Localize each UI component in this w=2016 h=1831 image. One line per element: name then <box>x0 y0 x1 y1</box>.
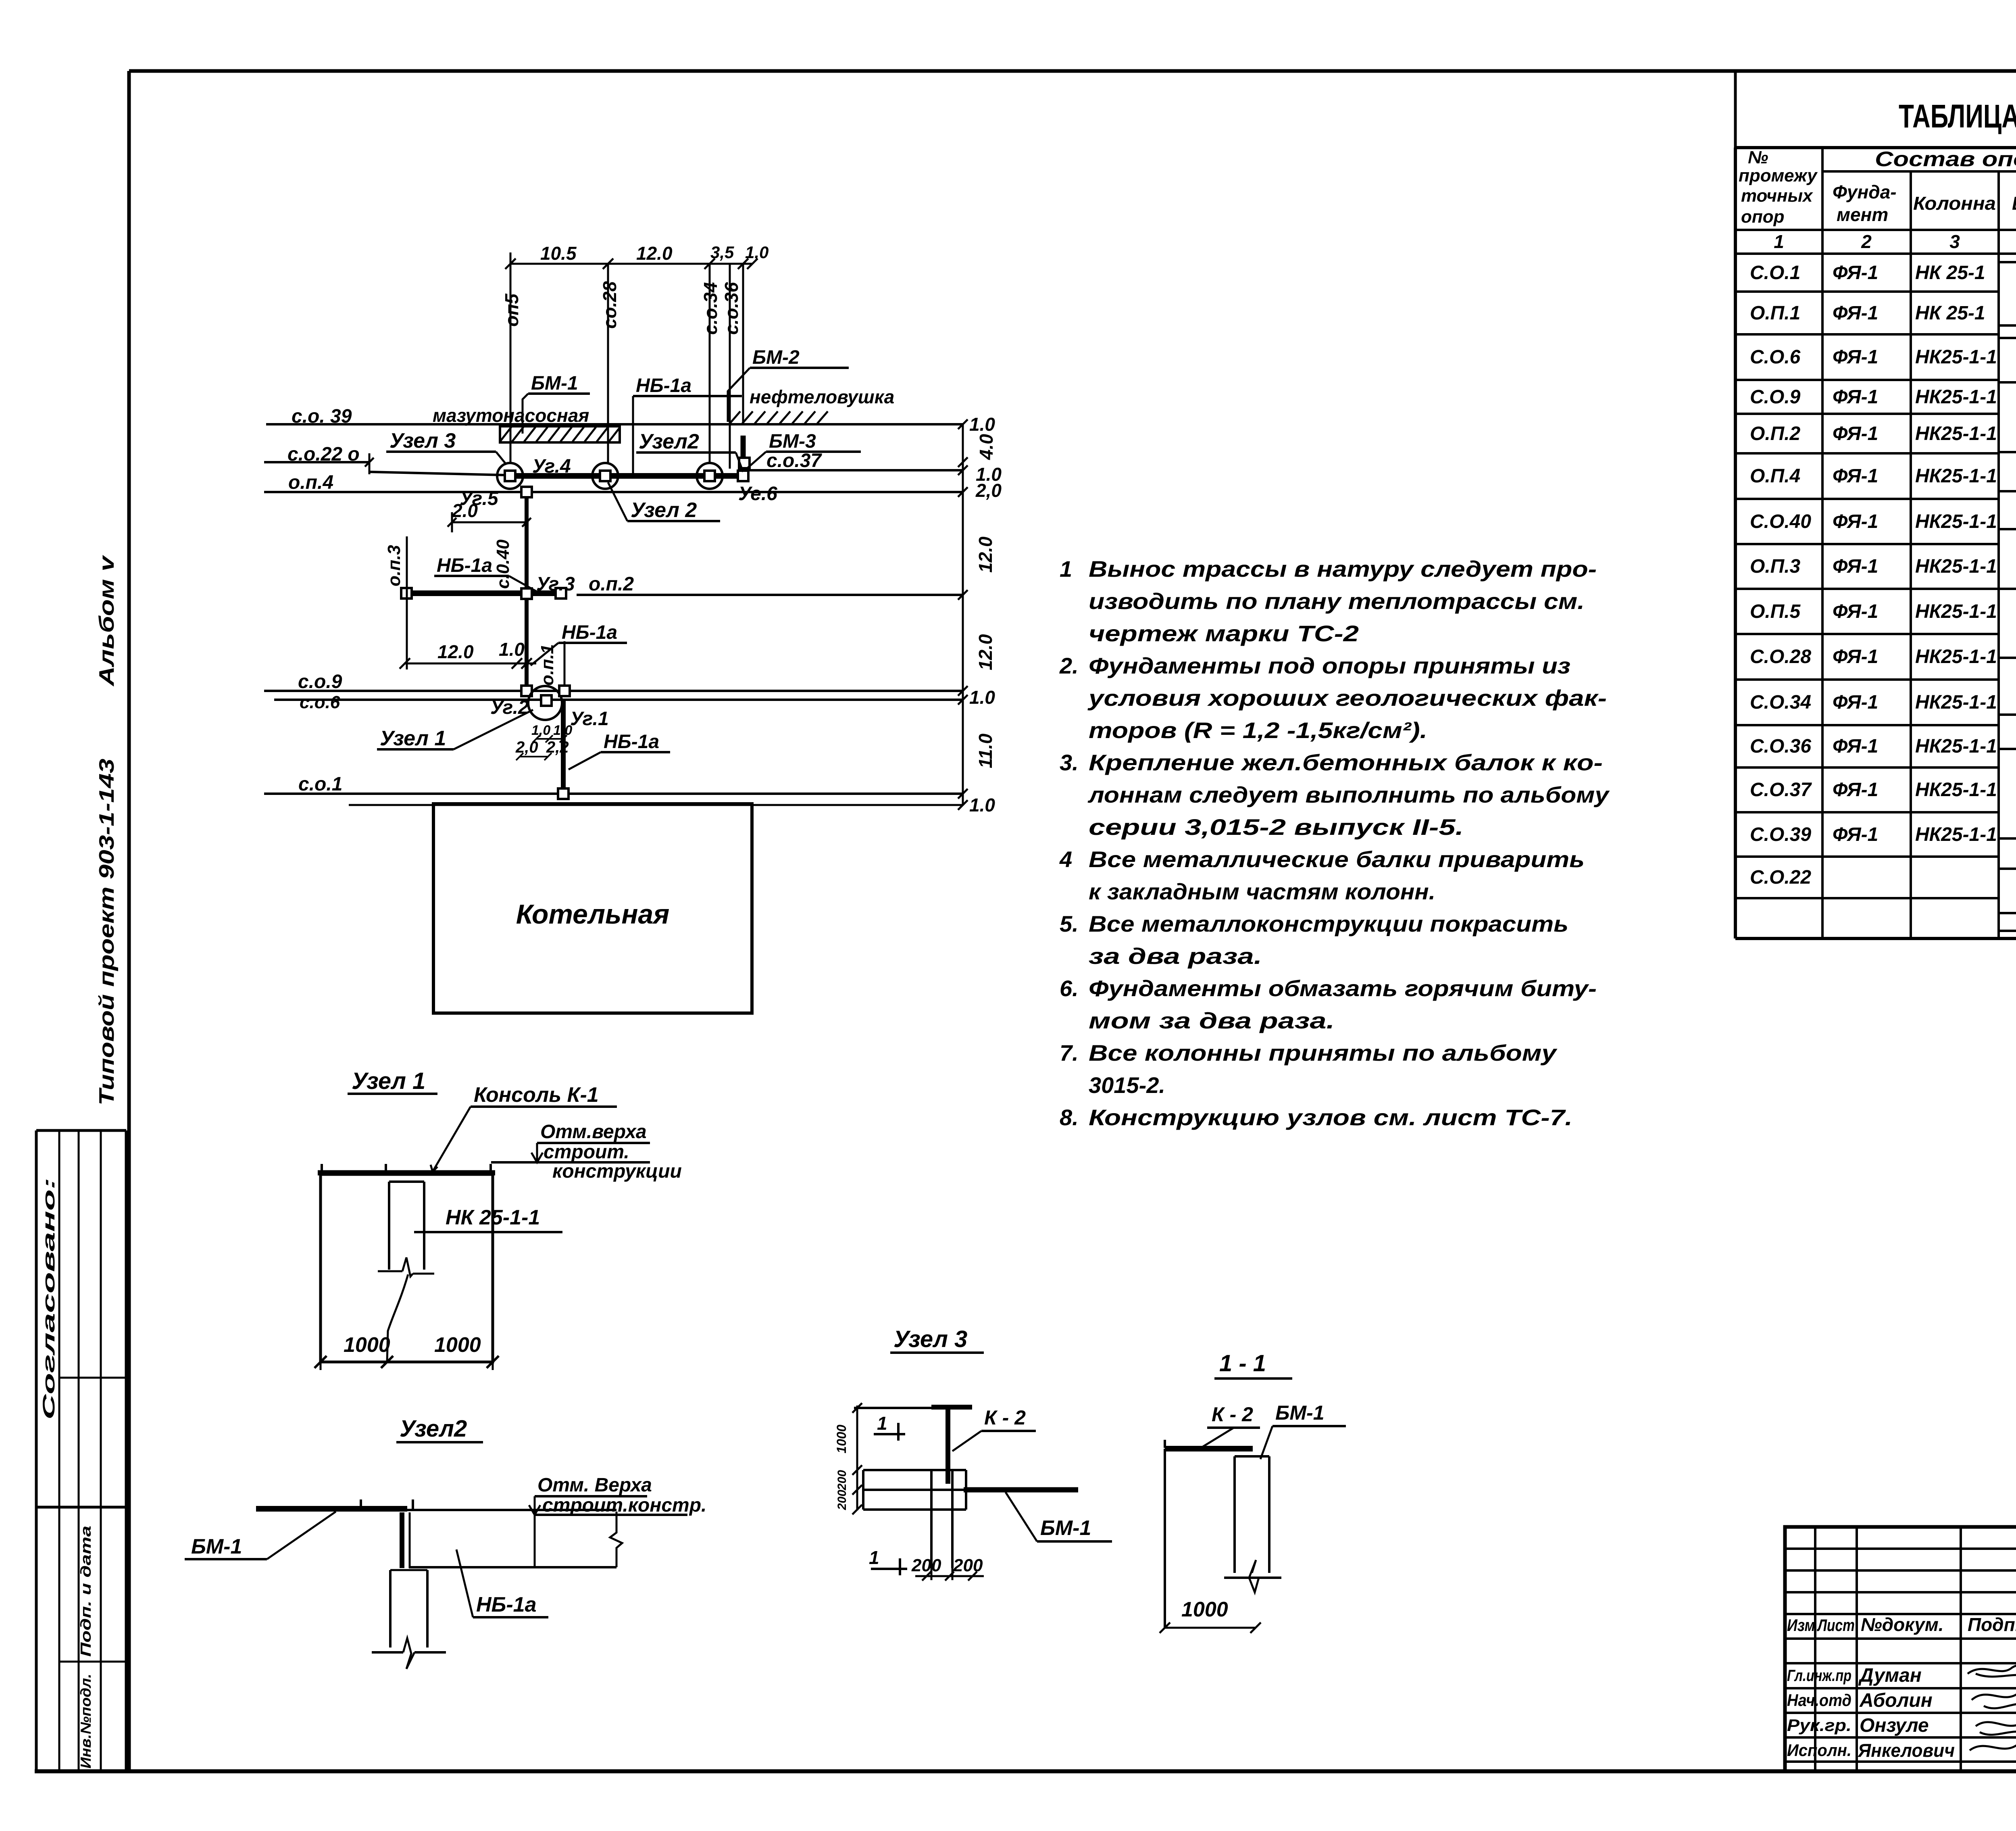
svg-text:О.П.1: О.П.1 <box>1750 302 1800 324</box>
detail Узел 1 title <box>348 1068 437 1094</box>
riser со.40 from Уг.5 down <box>493 487 532 686</box>
svg-text:1: 1 <box>1060 556 1072 582</box>
svg-text:ФЯ-1: ФЯ-1 <box>1833 736 1878 757</box>
svg-text:ФЯ-1: ФЯ-1 <box>1833 423 1878 444</box>
detail Узел 2: column below <box>372 1570 446 1669</box>
svg-text:НК25-1-1: НК25-1-1 <box>1915 465 1997 487</box>
svg-text:ФЯ-1: ФЯ-1 <box>1833 465 1878 487</box>
svg-text:ФЯ-1: ФЯ-1 <box>1833 779 1878 801</box>
detail Узел 3 title <box>890 1326 984 1353</box>
svg-text:С.О.28: С.О.28 <box>1750 646 1811 667</box>
svg-text:2.: 2. <box>1059 653 1079 678</box>
right dim labels <box>969 414 1002 815</box>
table row С.О.34 <box>1750 692 2016 713</box>
detail 1-1 title <box>1214 1350 1292 1378</box>
svg-text:С.О.1: С.О.1 <box>1750 262 1800 284</box>
svg-text:4.0: 4.0 <box>976 434 997 460</box>
main thick trace Уг.5 - Уг.4 - Уе.6 <box>506 436 744 477</box>
svg-text:БМ-2: БМ-2 <box>752 347 800 368</box>
svg-text:Подп. и дата: Подп. и дата <box>77 1526 94 1657</box>
label Узел 2 upper with leader <box>636 430 743 472</box>
svg-text:опор: опор <box>1741 207 1785 227</box>
svg-text:Все колонны приняты по ал: Все колонны приняты по альбому <box>1089 1040 1558 1066</box>
plan top dimension line <box>505 243 768 275</box>
svg-text:НК25-1-1: НК25-1-1 <box>1915 824 1997 845</box>
svg-text:НК25-1-1: НК25-1-1 <box>1915 601 1997 622</box>
table row С.О.28 <box>1750 646 2016 667</box>
svg-text:Узел 1: Узел 1 <box>352 1068 425 1094</box>
svg-text:Янкелович: Янкелович <box>1858 1740 1955 1761</box>
svg-text:200: 200 <box>835 1490 849 1510</box>
svg-text:Лист: Лист <box>1817 1616 1855 1635</box>
table row С.О.36 <box>1750 736 2016 757</box>
svg-text:ФЯ-1: ФЯ-1 <box>1833 601 1878 622</box>
table header texts <box>1739 148 2016 252</box>
svg-text:О.П.2: О.П.2 <box>1750 423 1801 444</box>
svg-text:Исполн.: Исполн. <box>1787 1741 1851 1760</box>
table row С.О.37 <box>1750 779 2016 801</box>
svg-text:НК25-1-1: НК25-1-1 <box>1915 736 1997 757</box>
node circle Уе.6 <box>697 458 777 505</box>
svg-text:2,0: 2,0 <box>975 480 1002 501</box>
detail Узел 2: beam НБ-1а side view <box>402 1512 622 1568</box>
svg-text:Фундаменты обмазать горячим: Фундаменты обмазать горячим биту- <box>1089 976 1597 1001</box>
svg-text:условия хороших геологически: условия хороших геологических фак- <box>1087 685 1607 711</box>
dim 12.0 / 1.0 under branch <box>400 639 536 669</box>
svg-text:Балка: Балка <box>2012 193 2016 214</box>
grid vertical со.28 <box>599 264 620 464</box>
detail Узел 1: label НК 25-1-1 <box>414 1206 562 1232</box>
label НБ-1а riser with leader <box>531 622 627 665</box>
detail Узел 1: foundation square <box>318 1164 495 1362</box>
grid vertical с.о.36 <box>721 264 742 469</box>
svg-text:с.о.34: с.о.34 <box>700 282 721 335</box>
svg-text:с.о.37: с.о.37 <box>766 450 822 471</box>
svg-text:12.0: 12.0 <box>975 536 996 573</box>
table row С.О.1 <box>1750 262 2016 284</box>
grid vertical short <box>742 264 744 423</box>
svg-text:НБ-1а: НБ-1а <box>476 1593 537 1616</box>
svg-text:НК25-1-1: НК25-1-1 <box>1915 346 1997 368</box>
hatched strip мазутонасосная <box>433 405 620 442</box>
svg-text:С.О.22: С.О.22 <box>1750 867 1811 888</box>
svg-text:ФЯ-1: ФЯ-1 <box>1833 692 1878 713</box>
svg-text:12.0: 12.0 <box>437 641 474 662</box>
detail Узел 2 title <box>396 1416 483 1442</box>
label БМ-3 with leader <box>747 431 861 469</box>
table column 4 Балка sub-cells <box>1999 262 2016 931</box>
svg-text:2,2: 2,2 <box>546 738 569 756</box>
svg-text:Отм. Верха: Отм. Верха <box>537 1474 652 1496</box>
table row С.О.6 <box>1750 346 2016 368</box>
svg-text:Крепление жел.бетонных балок: Крепление жел.бетонных балок к ко- <box>1089 750 1603 775</box>
svg-text:Уг.3: Уг.3 <box>536 573 575 595</box>
svg-text:№: № <box>1748 148 1768 167</box>
svg-text:Все металлические балки прив: Все металлические балки приварить <box>1089 847 1585 872</box>
svg-text:Изм: Изм <box>1787 1616 1815 1635</box>
detail Узел 1: level mark Отм.верха строит. конструкции <box>491 1121 682 1182</box>
svg-text:мазутонасосная: мазутонасосная <box>433 405 589 426</box>
svg-text:ФЯ-1: ФЯ-1 <box>1833 824 1878 845</box>
table row empty <box>0 0 0 0</box>
svg-text:НК25-1-1: НК25-1-1 <box>1915 386 1997 408</box>
svg-text:БМ-1: БМ-1 <box>1040 1516 1091 1540</box>
label БМ-1 with leader <box>523 373 590 434</box>
svg-text:К - 2: К - 2 <box>984 1406 1026 1429</box>
svg-text:1: 1 <box>869 1547 879 1568</box>
svg-text:ФЯ-1: ФЯ-1 <box>1833 386 1878 408</box>
svg-text:О.П.4: О.П.4 <box>1750 465 1800 487</box>
svg-text:Типовой проект 903-1-143: Типовой проект 903-1-143 <box>95 759 119 1105</box>
svg-text:Думан: Думан <box>1858 1665 1922 1686</box>
svg-text:НК25-1-1: НК25-1-1 <box>1915 423 1997 444</box>
svg-text:2,0: 2,0 <box>515 738 538 756</box>
left margin vertical text: project name <box>95 555 119 1105</box>
svg-text:3: 3 <box>1949 231 1960 252</box>
svg-text:серии 3,015-2 выпуск II-5: серии 3,015-2 выпуск II-5. <box>1089 814 1464 840</box>
svg-text:Узел 2: Узел 2 <box>631 498 697 522</box>
route line с.о.22 <box>264 444 506 475</box>
svg-text:Узел 3: Узел 3 <box>389 429 456 453</box>
node Уг.3 о.п.2 <box>521 573 963 599</box>
route line с.о.37 <box>749 450 963 471</box>
detail 1-1: bottom dim 1000 <box>1160 1598 1261 1633</box>
svg-text:оп5: оп5 <box>501 293 522 327</box>
svg-text:лоннам следует выполнить по: лоннам следует выполнить по альбому <box>1087 782 1610 807</box>
svg-text:№докум.: №докум. <box>1861 1614 1944 1635</box>
svg-text:чертеж марки ТС-2: чертеж марки ТС-2 <box>1089 621 1359 646</box>
svg-text:Узел2: Узел2 <box>639 430 699 453</box>
svg-text:О.П.5: О.П.5 <box>1750 601 1801 622</box>
handwritten notes list <box>1059 556 1610 1130</box>
detail Узел 3: label К-2 <box>952 1406 1036 1451</box>
svg-text:5.: 5. <box>1060 911 1079 936</box>
detail 1-1: labels К-2 and БМ-1 <box>1200 1401 1346 1459</box>
svg-text:точных: точных <box>1741 186 1813 206</box>
svg-text:Гл.инж.пр: Гл.инж.пр <box>1787 1667 1851 1685</box>
svg-text:Все металлоконструкции покра: Все металлоконструкции покрасить <box>1089 911 1568 936</box>
Узел 1 mini dims <box>515 723 572 760</box>
svg-text:с.0.40: с.0.40 <box>493 539 513 589</box>
svg-text:ТАБЛИЦА: ТАБЛИЦА <box>1899 98 2016 135</box>
svg-text:1.0: 1.0 <box>969 687 995 708</box>
label Узел 1 with leader <box>377 710 533 750</box>
svg-text:БМ-1: БМ-1 <box>1275 1401 1325 1424</box>
label НБ-1а lower with leader <box>569 731 670 770</box>
table row О.П.5 <box>1750 601 2016 622</box>
svg-text:торов (R = 1,2 -1,5кг/см²).: торов (R = 1,2 -1,5кг/см²). <box>1089 717 1427 743</box>
detail 1-1: beam БМ-1 vertical <box>1224 1456 1281 1592</box>
svg-text:Отм.верха: Отм.верха <box>540 1121 647 1143</box>
svg-text:Узел 3: Узел 3 <box>893 1326 967 1352</box>
svg-text:10.5: 10.5 <box>540 243 577 264</box>
svg-text:Инв.№подл.: Инв.№подл. <box>77 1674 94 1768</box>
detail Узел 3: label БМ-1 <box>1006 1492 1112 1541</box>
svg-text:1,0: 1,0 <box>745 243 768 262</box>
dim 2.0 below Уг.5 <box>448 500 531 532</box>
svg-text:200: 200 <box>835 1470 849 1491</box>
svg-text:БМ-1: БМ-1 <box>531 373 578 394</box>
route line с.о.6 <box>274 692 963 712</box>
svg-text:С.О.40: С.О.40 <box>1750 511 1811 532</box>
svg-text:НК 25-1: НК 25-1 <box>1915 262 1985 284</box>
signatures scribbles <box>1968 1665 2016 1750</box>
svg-text:о.п.3: о.п.3 <box>384 545 404 586</box>
svg-text:200: 200 <box>953 1556 983 1575</box>
svg-text:12.0: 12.0 <box>975 634 996 670</box>
right dimension boundary <box>958 419 968 810</box>
svg-text:1.0: 1.0 <box>969 795 995 815</box>
svg-text:НБ-1а: НБ-1а <box>562 622 617 643</box>
support table grid <box>1735 148 2016 938</box>
svg-text:3.: 3. <box>1060 750 1079 775</box>
svg-text:2: 2 <box>1861 231 1872 252</box>
svg-text:Рук.гр.: Рук.гр. <box>1787 1716 1851 1735</box>
svg-text:1000: 1000 <box>434 1333 481 1357</box>
svg-text:С.О.6: С.О.6 <box>1750 346 1801 368</box>
svg-text:4: 4 <box>1059 847 1072 872</box>
table row О.П.2 <box>1750 423 2016 444</box>
label БМ-2 with leader <box>728 347 849 422</box>
node circle Уг.5/Уг.4 <box>460 456 571 509</box>
svg-text:строит.констр.: строит.констр. <box>542 1495 706 1516</box>
svg-text:3,5: 3,5 <box>710 243 734 262</box>
svg-text:Уг.1: Уг.1 <box>570 708 609 730</box>
svg-text:со.28: со.28 <box>599 281 620 329</box>
detail Узел 1: label Консоль К-1 <box>431 1083 617 1172</box>
svg-text:НБ-1а: НБ-1а <box>604 731 659 753</box>
detail Узел 2: label НБ-1а <box>456 1549 548 1617</box>
svg-text:11.0: 11.0 <box>975 733 996 768</box>
route line along building top <box>349 804 963 806</box>
svg-text:НК25-1-1: НК25-1-1 <box>1915 556 1997 577</box>
svg-text:Вынос трассы в натуру следует: Вынос трассы в натуру следует про- <box>1089 556 1597 582</box>
svg-text:строит.: строит. <box>544 1141 629 1163</box>
svg-text:конструкции: конструкции <box>552 1161 682 1182</box>
svg-text:о.п.4: о.п.4 <box>288 472 333 493</box>
svg-text:Альбом v: Альбом v <box>95 555 119 687</box>
svg-text:к закладным частям колонн.: к закладным частям колонн. <box>1089 879 1435 904</box>
title block header Изм Лист Nдокум Подп Дата <box>1787 1614 2016 1635</box>
svg-text:Узел 1: Узел 1 <box>380 727 446 750</box>
svg-text:О.П.3: О.П.3 <box>1750 556 1801 577</box>
svg-text:Онзуле: Онзуле <box>1860 1715 1929 1736</box>
svg-text:Согласовано:: Согласовано: <box>39 1178 58 1420</box>
detail Узел 3: left dimension column <box>834 1403 862 1514</box>
node Узел 1 cluster <box>490 641 609 790</box>
svg-text:1000: 1000 <box>834 1424 849 1453</box>
svg-text:1000: 1000 <box>1181 1598 1228 1621</box>
route line о.п.4 <box>264 472 963 493</box>
grid vertical с.о.34 <box>700 264 721 464</box>
svg-text:Узел2: Узел2 <box>400 1416 467 1442</box>
detail Узел 3: block and beam БМ-1 <box>863 1470 1078 1568</box>
svg-text:Нач.отд: Нач.отд <box>1787 1691 1851 1710</box>
table row О.П.4 <box>1750 465 2016 487</box>
svg-text:С.О.34: С.О.34 <box>1750 692 1811 713</box>
svg-text:БМ-1: БМ-1 <box>191 1535 242 1558</box>
svg-text:промежу: промежу <box>1739 166 1818 186</box>
svg-text:НК25-1-1: НК25-1-1 <box>1915 779 1997 801</box>
svg-text:мент: мент <box>1837 204 1888 225</box>
svg-text:Колонна: Колонна <box>1913 193 1996 214</box>
svg-text:Уг.4: Уг.4 <box>532 456 571 477</box>
svg-text:С.О.39: С.О.39 <box>1750 824 1811 845</box>
title block outer <box>1785 1527 2016 1771</box>
svg-text:С.О.37: С.О.37 <box>1750 779 1812 801</box>
svg-text:1 - 1: 1 - 1 <box>1219 1350 1266 1376</box>
svg-text:Котельная: Котельная <box>516 899 670 930</box>
detail Узел 2: beam БМ-1 thick <box>256 1499 616 1510</box>
svg-text:Аболин: Аболин <box>1859 1690 1933 1711</box>
svg-text:ФЯ-1: ФЯ-1 <box>1833 556 1878 577</box>
svg-text:мом за два раза.: мом за два раза. <box>1089 1008 1335 1033</box>
svg-text:1,0: 1,0 <box>531 723 550 738</box>
hatched strip нефтеловушка <box>727 386 894 424</box>
building Котельная <box>433 804 752 1013</box>
label Узел 2 lower with leader <box>608 482 720 522</box>
detail Узел 3: top line and column К-2 <box>854 1407 972 1484</box>
svg-text:8.: 8. <box>1060 1105 1079 1130</box>
detail Узел 1: bottom dimension 1000 1000 <box>314 1333 499 1370</box>
svg-text:ФЯ-1: ФЯ-1 <box>1833 262 1878 284</box>
svg-text:ФЯ-1: ФЯ-1 <box>1833 346 1878 368</box>
svg-text:1.0: 1.0 <box>969 414 995 435</box>
svg-text:3015-2.: 3015-2. <box>1089 1072 1165 1098</box>
label НБ-1а branch with leader <box>434 555 536 591</box>
svg-text:изводить по плану теплотрассы: изводить по плану теплотрассы см. <box>1089 588 1585 614</box>
svg-text:Консоль К-1: Консоль К-1 <box>474 1083 599 1107</box>
detail Узел 2: level mark Отм. Верха строит.констр. <box>529 1474 706 1516</box>
svg-text:с.о.6: с.о.6 <box>300 692 340 712</box>
detail 1-1: column К-2 view <box>1165 1440 1253 1628</box>
svg-text:К - 2: К - 2 <box>1212 1403 1253 1426</box>
svg-text:Уе.6: Уе.6 <box>738 483 777 505</box>
label НБ-1а top with leader <box>633 375 742 475</box>
title block left grid <box>1785 1527 2016 1771</box>
svg-text:Состав опор: Состав опор <box>1875 148 2016 171</box>
svg-text:нефтеловушка: нефтеловушка <box>750 386 894 407</box>
support table title box <box>1735 71 2016 148</box>
svg-text:НБ-1а: НБ-1а <box>437 555 492 576</box>
svg-text:6.: 6. <box>1060 976 1079 1001</box>
svg-text:Подп.: Подп. <box>1968 1614 2016 1635</box>
node circle Узел 2 <box>592 463 618 489</box>
svg-text:ФЯ-1: ФЯ-1 <box>1833 511 1878 532</box>
table row О.П.3 <box>1750 556 2016 577</box>
svg-text:НК25-1-1: НК25-1-1 <box>1915 692 1997 713</box>
svg-text:с.о.36: с.о.36 <box>721 282 742 335</box>
svg-text:о.п.2: о.п.2 <box>589 573 634 595</box>
svg-text:о.п.1: о.п.1 <box>537 644 557 686</box>
detail Узел 3: section mark 1 top <box>874 1413 905 1441</box>
svg-text:Фунда-: Фунда- <box>1833 181 1897 202</box>
svg-text:НК25-1-1: НК25-1-1 <box>1915 511 1997 532</box>
left margin stamp table <box>36 1130 126 1771</box>
table row О.П.1 <box>1750 302 2016 324</box>
table row С.О.9 <box>1750 386 2016 408</box>
svg-text:с.о.9: с.о.9 <box>298 671 342 692</box>
detail Узел 3: bottom dims 200 200 <box>911 1556 984 1581</box>
svg-text:Фундаменты под опоры приняты: Фундаменты под опоры приняты из <box>1089 653 1570 678</box>
svg-text:1000: 1000 <box>344 1333 390 1357</box>
detail Узел 2: label БМ-1 <box>185 1512 336 1559</box>
route line с.о.9 <box>264 671 963 692</box>
branch о.п.3 thick beam <box>384 536 566 669</box>
svg-text:ФЯ-1: ФЯ-1 <box>1833 302 1878 324</box>
svg-text:НК25-1-1: НК25-1-1 <box>1915 646 1997 667</box>
svg-text:ФЯ-1: ФЯ-1 <box>1833 646 1878 667</box>
svg-text:НК 25-1-1: НК 25-1-1 <box>446 1206 540 1229</box>
svg-text:200: 200 <box>911 1556 941 1575</box>
route line с.о.39 <box>266 406 963 427</box>
svg-text:1.0: 1.0 <box>499 639 525 660</box>
svg-text:с.о.1: с.о.1 <box>298 774 342 795</box>
detail Узел 1: column НК 25-1-1 <box>378 1182 434 1362</box>
svg-text:НК 25-1: НК 25-1 <box>1915 302 1985 324</box>
svg-text:за два раза.: за два раза. <box>1089 943 1262 969</box>
route line с.о.1 <box>264 774 963 799</box>
svg-text:С.О.36: С.О.36 <box>1750 736 1811 757</box>
detail Узел 3: section mark 1 bottom <box>869 1547 907 1575</box>
svg-text:БМ-3: БМ-3 <box>769 431 816 452</box>
title block signature rows <box>1787 1665 1955 1761</box>
label Узел 3 with leader <box>386 429 506 465</box>
svg-text:1: 1 <box>1774 231 1784 252</box>
svg-text:1,0: 1,0 <box>553 723 572 738</box>
svg-text:Конструкцию узлов см. лист: Конструкцию узлов см. лист ТС-7. <box>1089 1105 1572 1130</box>
svg-text:С.О.9: С.О.9 <box>1750 386 1801 408</box>
grid vertical оп5 <box>501 264 522 464</box>
svg-text:7.: 7. <box>1060 1040 1079 1066</box>
table row С.О.22 <box>1750 867 1811 888</box>
table row С.О.39 <box>1750 824 2016 845</box>
table row С.О.40 <box>1750 511 2016 532</box>
svg-text:НБ-1а: НБ-1а <box>636 375 691 396</box>
svg-text:12.0: 12.0 <box>636 243 673 264</box>
svg-text:1: 1 <box>877 1413 887 1434</box>
